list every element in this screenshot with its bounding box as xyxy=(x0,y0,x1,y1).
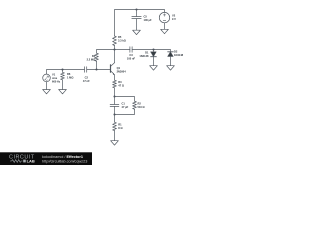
svg-text:D1: D1 xyxy=(145,50,149,54)
wire: R5 bottom stem xyxy=(114,46,116,50)
svg-text:1N4148: 1N4148 xyxy=(174,53,184,57)
node: emitter network bottom junction xyxy=(113,113,115,115)
node: junction R4 bottom xyxy=(95,68,97,70)
capacitor C5 xyxy=(132,17,141,19)
diode D1 1N4148 xyxy=(151,50,157,66)
wire: R2 branch top xyxy=(115,97,135,102)
wire: R4 top to collector node xyxy=(97,50,115,54)
svg-text:100 nF: 100 nF xyxy=(127,57,136,61)
wire: collector lead xyxy=(114,50,116,63)
wire: R3 bottom stem xyxy=(114,88,116,97)
label C3 100 nF xyxy=(127,53,136,61)
svg-text:510 Ω: 510 Ω xyxy=(138,105,145,109)
svg-text:3.3 kΩ: 3.3 kΩ xyxy=(118,39,126,43)
label R5 3.3 kΩ xyxy=(118,35,126,43)
ground (V1) xyxy=(43,90,51,94)
label R6 1 MΩ xyxy=(67,72,73,80)
svg-text:R5: R5 xyxy=(118,35,122,39)
svg-text:Q1: Q1 xyxy=(117,66,121,70)
wire: C3 to diodes xyxy=(132,50,170,52)
label R2 510 Ω xyxy=(138,101,145,109)
wire: R2 branch bottom xyxy=(115,109,135,114)
node: junction R6/input xyxy=(61,68,63,70)
svg-text:1 MΩ: 1 MΩ xyxy=(67,76,73,80)
wire: R4 bottom stem xyxy=(96,61,98,69)
svg-text:8 Ω: 8 Ω xyxy=(118,126,122,130)
capacitor C1 xyxy=(110,104,119,106)
svg-text:100 µF: 100 µF xyxy=(144,18,153,22)
resistor R2 xyxy=(133,101,137,109)
wire: C2 to Q1 base xyxy=(87,69,111,71)
svg-text:LAB: LAB xyxy=(27,159,35,164)
node: emitter network top junction xyxy=(113,95,115,97)
svg-text:R6: R6 xyxy=(67,72,71,76)
node: junction D1 xyxy=(152,48,154,50)
label D2 1N4148 xyxy=(174,50,184,58)
svg-text:R3: R3 xyxy=(118,80,122,84)
wire: C5 bottom stem xyxy=(136,19,138,31)
label C5 100 µF xyxy=(144,14,153,22)
svg-text:47 nF: 47 nF xyxy=(83,79,90,83)
ground (R1) xyxy=(111,141,119,145)
svg-text:D2: D2 xyxy=(174,50,178,54)
resistor R1 xyxy=(113,122,117,130)
node: collector junction xyxy=(113,48,115,50)
ground (V2) xyxy=(161,29,169,33)
wire: emitter lead xyxy=(114,75,116,81)
svg-text:1N4148: 1N4148 xyxy=(139,54,149,58)
resistor R6 xyxy=(61,72,65,80)
label C2 47 nF xyxy=(83,75,90,83)
svg-text:V1: V1 xyxy=(52,72,56,76)
ground (C5) xyxy=(133,30,141,34)
wire: R1 top stem xyxy=(114,115,116,123)
capacitor C2 xyxy=(85,67,87,73)
resistor R3 xyxy=(113,80,117,88)
wire: collector node to C3 xyxy=(115,49,130,51)
voltage source V2 xyxy=(159,12,169,22)
svg-text:R2: R2 xyxy=(138,101,142,105)
wire: V1 bottom stem xyxy=(46,82,48,90)
label R3 47 Ω xyxy=(118,80,124,88)
wire: C1 top stem xyxy=(114,97,116,105)
voltage source V1 xyxy=(43,74,51,82)
CircuitLab watermark bar xyxy=(0,152,92,165)
wire: top supply rail xyxy=(115,10,165,37)
resistor R5 xyxy=(113,36,117,46)
label C1 47 µF xyxy=(122,101,129,109)
ground (D1) xyxy=(150,66,158,70)
wire: R6 top stem xyxy=(62,70,64,73)
diode D2 1N4148 xyxy=(168,52,174,66)
svg-text:600 Hz: 600 Hz xyxy=(52,79,61,83)
svg-text:C1: C1 xyxy=(122,101,126,105)
transistor Q1 2N3904 xyxy=(111,63,115,75)
svg-text:http∶∕∕circuitlab.com∕cqwz23: http∶∕∕circuitlab.com∕cqwz23 xyxy=(42,159,87,163)
wire: C1 bottom stem xyxy=(114,107,116,115)
label D1 1N4148 xyxy=(139,50,149,58)
label Q1 2N3904 xyxy=(117,66,127,74)
svg-text:V2: V2 xyxy=(172,14,176,18)
svg-text:47 Ω: 47 Ω xyxy=(118,84,124,88)
svg-text:R4: R4 xyxy=(92,54,96,58)
wire: V2 bottom stem xyxy=(164,23,166,30)
svg-text:2.2 MΩ: 2.2 MΩ xyxy=(87,57,96,61)
resistor R4 xyxy=(95,53,99,61)
svg-text:47 µF: 47 µF xyxy=(122,105,129,109)
label V2 9 V xyxy=(172,14,176,22)
label V1 sine 600 Hz xyxy=(52,72,61,83)
svg-text:2N3904: 2N3904 xyxy=(117,70,127,74)
label R1 8 Ω xyxy=(118,122,122,130)
svg-text:C2: C2 xyxy=(85,75,89,79)
capacitor C3 xyxy=(130,47,132,53)
svg-text:9 V: 9 V xyxy=(172,17,176,21)
svg-text:sine: sine xyxy=(52,76,58,80)
ground (R6) xyxy=(59,90,67,94)
svg-text:C3: C3 xyxy=(129,53,133,57)
wire: R1 bottom stem xyxy=(114,131,116,141)
ground (D2) xyxy=(167,66,175,70)
svg-text:R1: R1 xyxy=(118,122,122,126)
wire: R6 bottom stem xyxy=(62,80,64,90)
node: junction C5/rail xyxy=(135,8,137,10)
label R4 2.2 MΩ xyxy=(87,54,96,62)
wire: C5 top stem xyxy=(136,10,138,17)
wire: V1 top to C2 left plate xyxy=(47,70,85,75)
svg-text:C5: C5 xyxy=(144,14,148,18)
